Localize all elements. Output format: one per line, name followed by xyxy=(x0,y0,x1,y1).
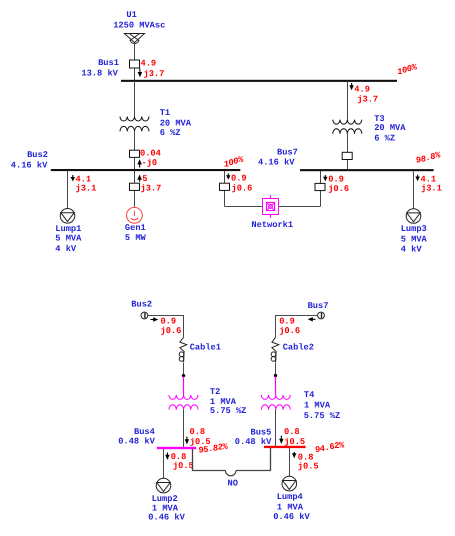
bus Bus1 xyxy=(121,80,397,82)
wire T4 to Bus5 xyxy=(275,410,277,446)
svg-text:13.8 kV: 13.8 kV xyxy=(81,68,118,78)
svg-text:0.8: 0.8 xyxy=(284,427,300,437)
flow label 0.8 j0.5 at Lump4 xyxy=(298,452,319,471)
flow label 4.9 j3.7 at Bus1 xyxy=(141,59,165,80)
wire Bus2 to Network1 left xyxy=(225,171,263,207)
wire Bus2 pin to Cable1 xyxy=(148,316,184,338)
label Bus1 13.8 kV xyxy=(81,58,119,78)
utility U1 xyxy=(124,34,144,44)
arrow down at Lump2 flow xyxy=(165,453,169,460)
svg-text:0.48 kV: 0.48 kV xyxy=(235,437,272,447)
bus Bus4 xyxy=(157,447,196,449)
generator Gen1 xyxy=(126,207,142,223)
svg-text:j3.7: j3.7 xyxy=(144,69,165,79)
breaker CB2 (T1 secondary) xyxy=(130,150,140,157)
svg-text:94.62%: 94.62% xyxy=(315,440,345,455)
svg-text:-j0: -j0 xyxy=(142,158,158,168)
bus Bus2 xyxy=(51,169,241,171)
label Lump2 1 MVA 0.46 kV xyxy=(148,494,185,522)
cable Cable1 xyxy=(179,338,187,363)
svg-text:Gen1: Gen1 xyxy=(125,223,146,233)
svg-text:Cable1: Cable1 xyxy=(190,342,221,352)
flow label 4.1 j3.1 at Lump1 xyxy=(76,174,97,193)
flow label 0.9 j0.6 at Network1 left xyxy=(231,173,252,193)
svg-text:1 MVA: 1 MVA xyxy=(277,502,304,512)
breaker CB4 (Network1 left) xyxy=(220,183,230,190)
arrow down at T3 primary flow xyxy=(349,83,353,90)
tie wire switch to Bus5 xyxy=(236,448,271,471)
svg-text:Network1: Network1 xyxy=(251,220,293,230)
arrow down at Network1 right flow xyxy=(323,175,327,181)
flow label 5 j3.7 at Gen1 xyxy=(141,174,162,194)
lumped load Lump3 xyxy=(406,209,421,224)
svg-text:U1: U1 xyxy=(126,10,136,20)
svg-text:100%: 100% xyxy=(397,62,417,77)
svg-text:j3.7: j3.7 xyxy=(357,95,378,105)
flow label 0.8 j0.5 at Lump2 xyxy=(171,452,194,471)
label U1 xyxy=(113,10,165,31)
svg-text:Lump1: Lump1 xyxy=(55,224,81,234)
svg-text:NO: NO xyxy=(228,478,238,488)
wire Cable2 to T4 with junction xyxy=(274,363,277,395)
network element Network1 xyxy=(263,195,279,217)
svg-text:5 MVA: 5 MVA xyxy=(55,234,82,244)
transformer T1 xyxy=(120,117,149,132)
wire T3 to Bus7 xyxy=(347,134,349,170)
svg-text:j3.1: j3.1 xyxy=(76,184,97,194)
svg-text:j0.5: j0.5 xyxy=(284,437,305,447)
svg-text:98.8%: 98.8% xyxy=(416,151,441,166)
label Lump1 5 MVA 4 kV xyxy=(55,224,82,254)
arrow down at Bus1 flow xyxy=(138,69,143,78)
svg-text:5: 5 xyxy=(142,174,147,184)
svg-text:T2: T2 xyxy=(210,387,220,397)
svg-text:4.16 kV: 4.16 kV xyxy=(11,161,48,171)
svg-text:0.9: 0.9 xyxy=(161,316,177,326)
tie wire Bus4 to switch xyxy=(193,449,226,471)
flow label 0.9 j0.6 at Cable2 xyxy=(279,317,300,337)
svg-text:20 MVA: 20 MVA xyxy=(374,123,406,133)
switch SW1 normally open xyxy=(225,471,236,476)
label Bus5 0.48 kV xyxy=(235,428,272,447)
svg-text:4.16 kV: 4.16 kV xyxy=(258,158,295,168)
svg-text:Cable2: Cable2 xyxy=(283,342,314,352)
svg-text:4.9: 4.9 xyxy=(354,84,370,94)
svg-text:T1: T1 xyxy=(160,108,170,118)
wire Bus7 to Lump3 xyxy=(413,172,415,209)
label Bus2 4.16 kV xyxy=(11,150,48,171)
breaker CB6 (T3 secondary) xyxy=(342,152,352,159)
flow label 4.9 j3.7 at T3 primary xyxy=(354,84,378,104)
bus Bus7 xyxy=(300,169,434,171)
label T3 20 MVA 6 %Z xyxy=(374,114,406,144)
arrow up at Gen1 flow xyxy=(137,175,142,182)
wire U1 to Bus1 xyxy=(134,43,136,80)
arrow down at Bus4 in xyxy=(185,437,189,445)
svg-text:Bus7: Bus7 xyxy=(277,148,298,158)
wire Bus2 to Gen1 xyxy=(134,171,136,208)
svg-text:0.9: 0.9 xyxy=(231,173,247,183)
wire Bus4 to Lump2 xyxy=(163,449,165,478)
svg-text:Lump3: Lump3 xyxy=(401,224,427,234)
transformer T3 xyxy=(333,120,362,134)
wire T1 to Bus2 xyxy=(134,131,136,169)
arrow up at T1 secondary xyxy=(137,159,142,167)
arrow down at Network1 left flow xyxy=(226,173,230,179)
svg-text:j0.6: j0.6 xyxy=(328,184,349,194)
flow label 0.9 j0.6 at Cable1 xyxy=(161,316,182,336)
arrow down at Lump3 flow xyxy=(415,175,419,182)
svg-text:Bus1: Bus1 xyxy=(98,58,119,68)
svg-text:4 kV: 4 kV xyxy=(401,245,423,255)
svg-text:Bus7: Bus7 xyxy=(308,301,329,311)
svg-text:0.46 kV: 0.46 kV xyxy=(273,512,310,522)
svg-text:4 kV: 4 kV xyxy=(55,244,77,254)
svg-text:Bus2: Bus2 xyxy=(27,150,48,160)
svg-text:0.46 kV: 0.46 kV xyxy=(148,513,185,523)
wire Bus7 pin to Cable2 xyxy=(276,316,318,338)
svg-text:j0.6: j0.6 xyxy=(279,326,300,336)
cable Cable2 xyxy=(271,338,278,363)
lumped load Lump2 xyxy=(156,478,171,493)
label Lump3 5 MVA 4 kV xyxy=(401,224,428,255)
label T2 1 MVA 5.75 %Z xyxy=(210,387,247,416)
svg-text:0.8: 0.8 xyxy=(190,427,206,437)
svg-text:0.9: 0.9 xyxy=(328,174,344,184)
svg-text:100%: 100% xyxy=(224,155,244,170)
arrow left at Cable2 flow xyxy=(308,317,316,321)
breaker CB5 (Network1 right) xyxy=(315,183,325,190)
wire Bus1 to T1 xyxy=(134,81,136,117)
svg-text:1 MVA: 1 MVA xyxy=(304,400,331,410)
flow label 0.9 j0.6 at Network1 right xyxy=(328,174,349,194)
svg-text:T4: T4 xyxy=(304,390,314,400)
svg-text:6 %Z: 6 %Z xyxy=(374,134,395,144)
svg-text:j3.7: j3.7 xyxy=(141,184,162,194)
wire Bus2 to Lump1 xyxy=(67,171,69,208)
label T4 1 MVA 5.75 %Z xyxy=(304,390,341,421)
svg-text:1250 MVAsc: 1250 MVAsc xyxy=(113,20,165,30)
arrow down at Lump4 flow xyxy=(292,452,296,458)
label Lump4 1 MVA 0.46 kV xyxy=(273,492,310,522)
svg-text:Bus2: Bus2 xyxy=(131,300,152,310)
svg-text:j0.6: j0.6 xyxy=(232,184,253,194)
bus pin connector Bus2 xyxy=(141,312,148,319)
breaker CB1 (U1 feeder) xyxy=(130,60,140,68)
wire Bus1 to T3 xyxy=(347,81,349,120)
flow label 0.8 j0.5 at Bus4 in xyxy=(190,427,211,447)
svg-text:Lump4: Lump4 xyxy=(277,492,303,502)
svg-text:5 MVA: 5 MVA xyxy=(401,235,428,245)
bus Bus5 xyxy=(264,446,306,448)
svg-text:5.75 %Z: 5.75 %Z xyxy=(304,411,341,421)
label Bus7 4.16 kV xyxy=(258,148,298,168)
svg-text:20 MVA: 20 MVA xyxy=(160,118,192,128)
label T1 20 MVA 6 %Z xyxy=(160,108,192,138)
svg-text:0.48 kV: 0.48 kV xyxy=(118,436,155,446)
svg-text:j0.5: j0.5 xyxy=(298,462,319,472)
lumped load Lump4 xyxy=(282,476,297,491)
label Gen1 5 MW xyxy=(125,223,147,243)
transformer T4 xyxy=(261,395,290,410)
arrow down at Bus5 in xyxy=(279,436,283,444)
svg-text:6 %Z: 6 %Z xyxy=(160,128,181,138)
flow label 0.8 j0.5 at Bus5 in xyxy=(284,427,305,447)
flow label 0.04 -j0 at T1 secondary xyxy=(140,149,161,169)
svg-text:j0.5: j0.5 xyxy=(173,461,194,471)
label Bus4 0.48 kV xyxy=(118,427,155,446)
arrow down at Lump1 flow xyxy=(71,175,75,182)
svg-text:0.9: 0.9 xyxy=(279,317,295,327)
transformer T2 xyxy=(169,395,198,410)
svg-text:j0.6: j0.6 xyxy=(161,326,182,336)
svg-text:5.75 %Z: 5.75 %Z xyxy=(210,406,247,416)
lumped load Lump1 xyxy=(60,209,75,224)
wire Cable1 to T2 with junction xyxy=(182,363,185,395)
svg-text:0.04: 0.04 xyxy=(140,149,161,159)
arrow right at Cable1 flow xyxy=(151,317,159,321)
bus pin connector Bus7 xyxy=(318,312,325,319)
flow label 4.1 j3.1 at Lump3 xyxy=(421,174,442,193)
wire Bus7 to Network1 right xyxy=(279,171,321,207)
wire Bus5 to Lump4 xyxy=(289,448,291,476)
breaker CB3 (Gen1) xyxy=(130,183,140,190)
wire T2 to Bus4 xyxy=(183,410,185,447)
svg-text:4.9: 4.9 xyxy=(141,59,157,69)
svg-text:j3.1: j3.1 xyxy=(421,184,442,194)
svg-text:5 MW: 5 MW xyxy=(125,233,147,243)
